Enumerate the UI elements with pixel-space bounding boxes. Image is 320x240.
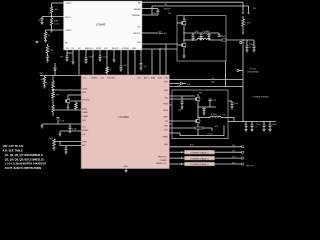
- svg-text:VOSNS: VOSNS: [122, 48, 129, 50]
- svg-text:10k: 10k: [56, 95, 59, 97]
- svg-text:0.15uH: 0.15uH: [211, 114, 217, 116]
- svg-text:Q2, Q4, Q6, Q8: BSC010NE2LSI: Q2, Q4, Q6, Q8: BSC010NE2LSI: [5, 157, 44, 161]
- svg-text:NC: NC: [65, 43, 69, 45]
- svg-text:SENSE: SENSE: [133, 9, 141, 11]
- svg-text:0.33uH: 0.33uH: [198, 37, 204, 39]
- svg-text:10k: 10k: [168, 13, 171, 15]
- svg-text:INTVCC: INTVCC: [112, 48, 120, 50]
- svg-text:LTC3880: LTC3880: [118, 115, 129, 119]
- svg-text:GND: GND: [123, 166, 128, 168]
- svg-text:9.1k: 9.1k: [253, 8, 257, 10]
- svg-text:100uF: 100uF: [272, 124, 277, 126]
- svg-text:22uF: 22uF: [234, 103, 238, 105]
- svg-text:ASEL: ASEL: [82, 107, 87, 110]
- svg-text:61.9k: 61.9k: [246, 23, 251, 25]
- svg-text:STAGE 2,3,4: STAGE 2,3,4: [156, 162, 166, 165]
- svg-text:CONFIG: CONFIG: [91, 77, 99, 79]
- svg-text:LT8648S: LT8648S: [96, 24, 106, 27]
- svg-text:Q1, Q3, Q5, Q7: BSC050NE2LS: Q1, Q3, Q5, Q7: BSC050NE2LS: [5, 153, 43, 157]
- svg-text:100k: 100k: [49, 138, 53, 140]
- svg-text:CTRL1: CTRL1: [65, 3, 72, 5]
- svg-text:1V/60A MAX: 1V/60A MAX: [247, 71, 259, 74]
- svg-text:ILIM: ILIM: [82, 120, 86, 122]
- svg-text:100k: 100k: [40, 79, 44, 81]
- svg-text:10k: 10k: [50, 50, 53, 52]
- svg-text:BG3: BG3: [158, 77, 162, 79]
- svg-text:SW1: SW1: [164, 125, 168, 127]
- svg-text:4.7uF: 4.7uF: [72, 129, 78, 131]
- svg-text:TG4: TG4: [164, 77, 168, 79]
- svg-text:VOUT1: VOUT1: [249, 68, 257, 70]
- svg-text:8.2pF: 8.2pF: [162, 33, 168, 35]
- svg-text:SENSE+: SENSE+: [132, 15, 141, 17]
- svg-text:6800pF: 6800pF: [164, 8, 171, 10]
- svg-text:VSNS: VSNS: [163, 110, 169, 112]
- svg-text:SW: SW: [137, 42, 140, 44]
- svg-text:ISN1: ISN1: [164, 90, 168, 92]
- svg-text:GND: GND: [132, 48, 137, 50]
- svg-text:3880 F01: 3880 F01: [246, 165, 254, 167]
- svg-text:BG4: BG4: [190, 145, 194, 147]
- svg-text:470uF: 470uF: [249, 44, 255, 46]
- svg-text:TSNS: TSNS: [163, 103, 169, 105]
- svg-text:POWER STAGE 1: POWER STAGE 1: [253, 95, 271, 98]
- svg-text:PWM FOR: PWM FOR: [158, 157, 167, 159]
- svg-text:10: 10: [110, 69, 112, 71]
- svg-text:CBOOT: CBOOT: [133, 33, 141, 35]
- svg-text:10: 10: [212, 78, 214, 80]
- svg-text:NC: NC: [137, 27, 141, 29]
- svg-text:VIN: 4.5V TO 14V: VIN: 4.5V TO 14V: [3, 144, 24, 148]
- svg-text:TG1: TG1: [165, 121, 169, 123]
- svg-text:A B: SEE TABLE: A B: SEE TABLE: [3, 148, 24, 152]
- svg-text:VL2: VL2: [232, 151, 235, 153]
- svg-text:BST3: BST3: [144, 77, 149, 79]
- svg-text:GND: GND: [164, 144, 169, 146]
- svg-text:PGOOD1: PGOOD1: [82, 99, 90, 101]
- svg-text:SYNC: SYNC: [82, 88, 88, 90]
- svg-text:DCR: DCR: [209, 133, 214, 135]
- svg-text:2002: 2002: [211, 82, 215, 84]
- svg-text:DB1: DB1: [206, 31, 210, 33]
- svg-text:L1-L4: 0.33uH WURTH 744301033: L1-L4: 0.33uH WURTH 744301033: [5, 162, 47, 166]
- svg-text:SW3: SW3: [151, 77, 155, 79]
- svg-text:1k: 1k: [48, 35, 50, 37]
- svg-text:PVCC: PVCC: [65, 17, 71, 19]
- svg-text:PHAS1: PHAS1: [82, 111, 88, 114]
- svg-text:VL1: VL1: [232, 145, 235, 147]
- svg-text:VL3: VL3: [232, 156, 235, 158]
- svg-text:EN/UVLO: EN/UVLO: [85, 48, 94, 50]
- svg-text:4.22k: 4.22k: [54, 23, 59, 25]
- svg-text:COUT: SANYO 2R5TPE470M9: COUT: SANYO 2R5TPE470M9: [5, 166, 42, 170]
- svg-text:SYNC: SYNC: [96, 48, 102, 50]
- svg-text:1.5m: 1.5m: [222, 114, 226, 116]
- svg-text:0.1uF: 0.1uF: [103, 57, 109, 59]
- svg-text:BG1: BG1: [164, 129, 168, 131]
- svg-text:RUN: RUN: [82, 92, 87, 94]
- svg-text:13.3k: 13.3k: [38, 20, 43, 22]
- svg-text:TG3: TG3: [137, 77, 141, 79]
- svg-text:x2: x2: [249, 47, 251, 49]
- svg-text:VCC: VCC: [104, 48, 109, 50]
- svg-text:10k: 10k: [164, 4, 167, 6]
- svg-text:POWER: POWER: [160, 160, 167, 162]
- svg-text:PHAS2: PHAS2: [82, 115, 88, 118]
- svg-text:RSET: RSET: [54, 20, 60, 22]
- svg-text:POWER STAGE 2: POWER STAGE 2: [191, 151, 210, 154]
- svg-text:0.1uF: 0.1uF: [60, 121, 66, 123]
- svg-text:PWM1: PWM1: [163, 136, 168, 138]
- svg-text:PHAS3: PHAS3: [82, 129, 88, 132]
- svg-text:BST1: BST1: [164, 116, 169, 118]
- svg-text:x2: x2: [256, 126, 258, 128]
- svg-text:VL4: VL4: [232, 162, 235, 164]
- svg-text:POWER STAGE 4: POWER STAGE 4: [191, 163, 210, 166]
- svg-text:ISP1: ISP1: [164, 82, 168, 84]
- svg-text:2.2uF: 2.2uF: [89, 57, 95, 59]
- svg-text:PGOODS: PGOODS: [107, 77, 116, 79]
- svg-text:FB1: FB1: [165, 97, 168, 99]
- svg-text:POWER STAGE 3: POWER STAGE 3: [191, 157, 210, 160]
- svg-text:CTRL2: CTRL2: [65, 30, 72, 32]
